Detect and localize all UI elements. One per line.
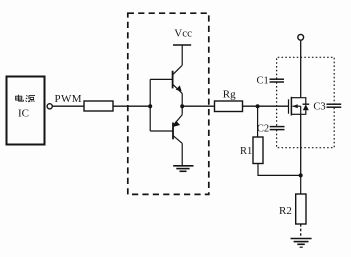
wire: junction down to R2 (300, 175, 302, 194)
wire: driver output to Rg (182, 105, 214, 107)
svg-text:Rg: Rg (223, 89, 236, 101)
wire: R1 bottom to source node (258, 164, 301, 176)
transistor Q1 (NPN, upper) (173, 65, 183, 106)
transistor Q2 (PNP, lower) (173, 106, 182, 165)
MOSFET Q3 (N-channel with body diode) (289, 97, 310, 116)
capacitor C3 (drain-source parasitic) (327, 104, 342, 107)
电 (16, 95, 24, 102)
wire: junction down to R1 (257, 106, 259, 137)
svg-text:PWM: PWM (55, 93, 82, 105)
svg-text:R2: R2 (279, 205, 292, 217)
parasitic capacitance dotted box (277, 57, 335, 147)
resistor R1 (253, 137, 263, 164)
node: gate / R1 junction (256, 104, 260, 108)
ground (source side) (291, 239, 312, 248)
label 电源 (drawn glyphs) (16, 95, 35, 103)
ground (driver stage) (173, 166, 193, 172)
terminal node (drain, open circle) (298, 34, 304, 40)
wire: R2 to ground (dashed) (300, 224, 302, 237)
driver stage dashed box (128, 13, 209, 194)
源 (25, 95, 35, 102)
terminal node A (PWM pin, open circle) (47, 104, 52, 109)
capacitor C1 (gate-drain parasitic) (270, 79, 285, 82)
wire: base bus vertical with leads (150, 79, 173, 131)
svg-text:C1: C1 (257, 75, 269, 86)
wire: resistor into driver box to bases node (113, 105, 150, 107)
wire: Rg to gate (through junction) (243, 105, 289, 107)
resistor (PWM series, unlabeled) (84, 101, 113, 111)
svg-text:C2: C2 (257, 123, 269, 134)
node: emitters output junction (180, 104, 184, 108)
svg-text:Vcc: Vcc (174, 27, 192, 39)
node: bases junction (148, 104, 152, 108)
wire: drain terminal down to MOSFET (300, 41, 302, 98)
wire: MOSFET source down to junction (300, 114, 302, 175)
capacitor C2 (gate-source parasitic) (270, 127, 285, 130)
svg-text:IC: IC (18, 108, 29, 120)
resistor Rg (215, 101, 243, 112)
power rail Vcc bar (173, 44, 191, 46)
power IC box (U1 电源 IC) (7, 77, 45, 145)
svg-text:C3: C3 (313, 101, 325, 112)
resistor R2 (296, 194, 306, 224)
wire: PWM pin to series resistor (53, 105, 84, 107)
wire: Vcc to Q1 collector (181, 45, 183, 65)
svg-text:R1: R1 (240, 146, 252, 157)
node: source / R2 junction (299, 173, 303, 177)
